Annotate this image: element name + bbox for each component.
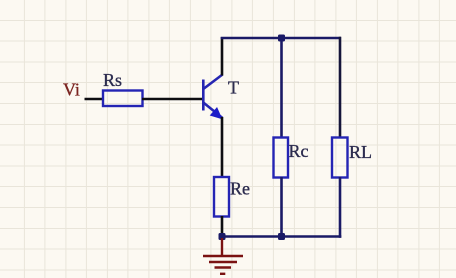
junction bottom bus / Re — [219, 233, 226, 240]
svg-text:RL: RL — [349, 142, 372, 162]
wire top bus — [221, 37, 341, 40]
wire Vi lead — [85, 98, 105, 101]
resistor Rc — [274, 138, 289, 178]
wire Re bottom — [221, 216, 224, 237]
wire collector — [221, 37, 224, 76]
ground — [203, 238, 243, 274]
svg-text:Rs: Rs — [103, 70, 122, 90]
svg-text:T: T — [228, 78, 239, 98]
resistor Rs — [103, 91, 143, 107]
transistor T — [203, 75, 222, 119]
svg-text:Re: Re — [230, 179, 250, 199]
wire Rc bottom — [280, 177, 283, 237]
wire bottom bus — [221, 235, 342, 238]
wire Rc drop — [280, 38, 283, 139]
resistor Re — [214, 177, 229, 217]
svg-text:Vi: Vi — [63, 80, 80, 100]
junction top bus / Rc — [278, 35, 285, 42]
resistor RL — [332, 138, 348, 178]
wire RL drop — [339, 37, 342, 139]
wire Rs to base — [142, 98, 203, 101]
svg-text:Rc: Rc — [289, 141, 309, 161]
junction bottom bus / Rc — [278, 233, 285, 240]
wire emitter — [221, 117, 224, 178]
wire RL bottom — [339, 177, 342, 238]
